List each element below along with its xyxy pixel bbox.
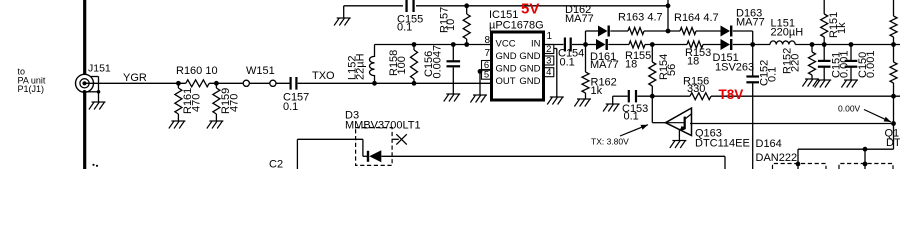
svg-text:MA77: MA77 <box>590 59 619 71</box>
svg-text:1SV263: 1SV263 <box>715 62 754 74</box>
ground (R159) <box>207 121 224 129</box>
resistor R164 (4.7) <box>680 28 696 35</box>
svg-text:18: 18 <box>687 56 699 68</box>
resistor R163 (4.7) <box>628 28 644 35</box>
svg-text:0.1: 0.1 <box>624 111 639 123</box>
wire: 5V rail <box>344 5 403 7</box>
ground (C156) <box>444 94 461 102</box>
node: R154 junction <box>650 42 655 47</box>
svg-text:MA77: MA77 <box>736 17 765 29</box>
svg-text:0.001: 0.001 <box>839 50 851 78</box>
wire: pins 6 ground drop <box>479 71 481 95</box>
svg-text:0.0047: 0.0047 <box>432 45 444 79</box>
inductor L152 (22uH) vertical coil <box>347 45 375 84</box>
wire: PA unit shield boundary (thick vertical) <box>83 0 86 169</box>
svg-text:5V: 5V <box>521 1 539 18</box>
svg-text:P1(J1): P1(J1) <box>18 84 45 94</box>
resistor R161 (470) vertical <box>175 83 203 121</box>
diode D151 1SV263 <box>713 39 755 74</box>
D164 dashed box left <box>773 164 827 170</box>
capacitor C152 (0.1) series in line down <box>746 45 778 170</box>
resistor R160 (10) <box>186 80 209 87</box>
capacitor C150 (0.001) to ground <box>845 45 877 81</box>
pin 3 (boxed) <box>544 56 554 65</box>
svg-text:GND: GND <box>519 51 540 62</box>
svg-text:56: 56 <box>666 64 678 76</box>
svg-text:1: 1 <box>547 31 553 42</box>
resistor R156 (330) <box>690 93 711 100</box>
capacitor C156 (0.0047) to ground <box>423 45 460 95</box>
node: C153/R154/Q163 junction <box>650 94 655 99</box>
svg-text:4: 4 <box>546 67 551 78</box>
wire: Q1 base vertical <box>893 96 895 149</box>
capacitor C157 (0.1) <box>283 77 309 113</box>
svg-text:MA77: MA77 <box>565 13 594 25</box>
ground (IC right pins) <box>547 97 564 105</box>
unused pin X mark <box>392 134 407 144</box>
ground (C155) <box>343 6 345 18</box>
svg-text:220: 220 <box>790 54 802 72</box>
svg-text:0.1: 0.1 <box>397 22 412 34</box>
svg-text:µPC1678G: µPC1678G <box>489 20 544 32</box>
text: to PA unit P1(J1) <box>18 67 46 95</box>
wire: D164 tie line <box>798 148 894 150</box>
capacitor C153 (0.1) <box>622 90 648 123</box>
connector J151 coax jack <box>76 74 101 102</box>
pin 4 (boxed) <box>544 68 554 77</box>
node: 5V feed junction <box>666 29 671 34</box>
resistor R159 (470) vertical <box>213 83 241 121</box>
svg-text:R163 4.7: R163 4.7 <box>618 12 663 24</box>
pin 5 (boxed) <box>482 70 492 79</box>
capacitor C151 (0.001) to ground <box>818 45 851 81</box>
svg-text:GND: GND <box>496 51 517 62</box>
svg-text:0.1: 0.1 <box>283 101 298 113</box>
svg-text:IN: IN <box>531 39 541 50</box>
wire: Q163 collector line to Q1 <box>690 123 894 125</box>
ground (R162) <box>574 99 591 107</box>
svg-text:GND: GND <box>496 64 517 75</box>
shield line end marks <box>92 164 94 166</box>
diode D162 MA77 <box>565 4 628 37</box>
svg-text:7: 7 <box>484 48 490 59</box>
ground (IC left pins) <box>470 95 487 103</box>
svg-text:DAN222: DAN222 <box>756 152 798 164</box>
svg-text:J151: J151 <box>88 63 111 75</box>
ground (C151) <box>815 80 832 88</box>
varactor D3 MMBV3700LT1 (dashed package) <box>356 128 393 166</box>
annotation TX: 3.80V with arrow <box>591 125 648 147</box>
resistor (top, partially cut) at right edge <box>890 0 897 45</box>
wire: D163 down to output node <box>752 31 754 45</box>
resistor R162 (1k) vertical to ground <box>582 45 617 100</box>
svg-text:VCC: VCC <box>496 39 516 50</box>
svg-text:0.00V: 0.00V <box>838 104 861 114</box>
svg-text:10: 10 <box>445 19 457 31</box>
svg-text:DTC114EE: DTC114EE <box>695 138 750 150</box>
resistor (lower, partially cut) at right edge <box>890 45 897 97</box>
svg-text:R164 4.7: R164 4.7 <box>674 12 719 24</box>
D164 dashed box right <box>839 164 893 170</box>
svg-text:GND: GND <box>519 64 540 75</box>
svg-text:YGR: YGR <box>123 72 147 84</box>
svg-text:0.1: 0.1 <box>560 57 575 69</box>
svg-text:1k: 1k <box>591 85 603 97</box>
svg-text:TX: 3.80V: TX: 3.80V <box>591 137 629 147</box>
svg-text:100: 100 <box>396 56 408 74</box>
wire: VCC sub-rail to pin 8 <box>375 44 492 46</box>
svg-text:0.1: 0.1 <box>767 67 779 82</box>
ground (C153) <box>612 96 614 104</box>
IC151 internal pin names <box>496 39 541 88</box>
wire: T8V bias line <box>613 95 628 97</box>
svg-text:MMBV3700LT1: MMBV3700LT1 <box>345 120 421 132</box>
resistor R151 (1k) pull-up from top <box>821 0 848 45</box>
annotation 0.00V with arrow <box>838 104 891 123</box>
svg-text:470: 470 <box>191 94 203 112</box>
svg-text:D164: D164 <box>756 138 782 150</box>
pin 6 (boxed) <box>482 61 492 70</box>
svg-text:R160 10: R160 10 <box>176 65 218 77</box>
resistor R158 (100) vertical <box>388 45 418 84</box>
ground (Q163 emitter) <box>670 141 687 149</box>
ground (C150) <box>841 80 858 88</box>
op-amp/IC U=IC151 uPC1678G body <box>492 32 544 100</box>
svg-text:22µH: 22µH <box>355 53 367 80</box>
node: C154 output junction <box>583 42 588 47</box>
svg-text:2: 2 <box>546 44 551 55</box>
svg-text:330: 330 <box>687 83 705 95</box>
ground (R161) <box>169 121 186 129</box>
pin 2 (boxed) <box>544 45 554 54</box>
diode D163 MA77 <box>721 8 765 37</box>
svg-text:TXO: TXO <box>312 70 335 82</box>
resistor R152 (220) vertical to ground <box>782 45 816 80</box>
svg-text:W151: W151 <box>246 65 275 77</box>
svg-text:18: 18 <box>625 59 637 71</box>
wire: main signal line YGR/TXO <box>85 82 186 84</box>
jumper W151 (two open circles) <box>243 65 276 86</box>
diode D161 MA77 <box>586 39 630 71</box>
wire: 5V feed from top <box>667 0 669 31</box>
transistor Q163 DTC114EE <box>652 96 750 149</box>
svg-text:T8V: T8V <box>719 87 744 102</box>
ground (J151 shield) <box>89 102 106 110</box>
wire: C2 branch <box>296 139 298 169</box>
ground (R152) <box>802 79 819 87</box>
node: R160 right junction <box>214 81 219 86</box>
svg-text:C2: C2 <box>269 159 283 170</box>
svg-text:0.001: 0.001 <box>865 50 877 78</box>
node: R160 left junction <box>176 81 181 86</box>
resistor R157 (10) vertical <box>439 6 471 45</box>
svg-text:3: 3 <box>546 56 551 67</box>
wire: right pins ground drop <box>554 48 557 50</box>
resistor R155 (18) <box>629 41 645 48</box>
svg-text:GND: GND <box>519 76 540 87</box>
svg-text:220µH: 220µH <box>771 27 804 39</box>
svg-text:5: 5 <box>484 70 489 81</box>
wire: branch vertical at node <box>585 31 587 45</box>
wire: varactor output line <box>381 155 725 157</box>
node: attenuator output <box>750 42 755 47</box>
svg-text:470: 470 <box>229 94 241 112</box>
inductor L151 (220uH) <box>753 18 900 45</box>
svg-text:1k: 1k <box>836 22 848 34</box>
resistor R153 (18) <box>687 41 703 48</box>
resistor R154 (56) vertical <box>649 45 678 97</box>
capacitor C154 (0.1) <box>544 38 586 69</box>
svg-text:DT: DT <box>886 137 900 149</box>
capacitor C155 (0.1) <box>397 0 423 34</box>
svg-text:OUT: OUT <box>496 76 516 87</box>
svg-text:8: 8 <box>484 35 490 46</box>
